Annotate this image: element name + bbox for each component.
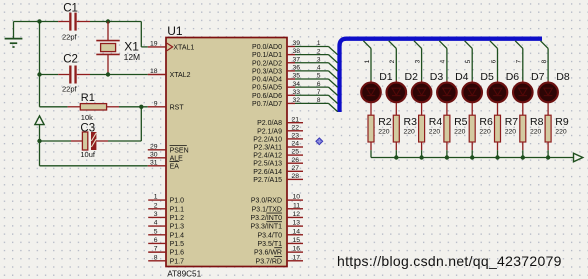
pin name PSEN overline <box>170 145 189 154</box>
resistor R5 <box>444 115 468 157</box>
svg-text:D6: D6 <box>506 71 520 83</box>
wire bus drop 8 <box>541 41 549 81</box>
power terminal VCC <box>35 116 44 166</box>
pin 6 P1.5 stub <box>148 237 166 244</box>
svg-text:D8: D8 <box>556 71 570 83</box>
svg-text:D3: D3 <box>430 71 444 83</box>
svg-text:5: 5 <box>154 228 158 235</box>
LED D1 <box>361 71 393 115</box>
resistor R8 <box>520 115 544 157</box>
svg-text:R9: R9 <box>555 116 569 128</box>
wire bus drop 1 <box>363 41 371 81</box>
resistor R3 <box>393 115 417 157</box>
svg-text:1: 1 <box>364 59 371 63</box>
wire top rail <box>14 21 59 23</box>
svg-text:5: 5 <box>317 73 321 80</box>
capacitor C1 <box>58 3 90 42</box>
resistor R6 <box>469 115 493 157</box>
wire bus drop 4 <box>439 41 447 81</box>
pin 15 P3.5/T1 stub <box>257 237 303 248</box>
pin 21 P2.0/A8 stub <box>257 116 303 127</box>
pin 37 P0.2/AD2 <box>252 56 300 67</box>
pin 11 P3.1/TXD stub <box>252 202 303 213</box>
svg-text:D7: D7 <box>531 71 545 83</box>
LED D7 <box>513 71 545 115</box>
pin 35 P0.4/AD4 <box>252 73 300 84</box>
svg-text:18: 18 <box>150 68 158 75</box>
wire P0.4 to bus <box>295 73 338 88</box>
svg-text:13: 13 <box>292 220 300 227</box>
pin 17 P3.7/RD stub <box>256 254 303 265</box>
svg-text:8: 8 <box>541 59 548 63</box>
svg-text:26: 26 <box>291 157 299 164</box>
svg-text:P3.2/INT0: P3.2/INT0 <box>250 215 282 222</box>
svg-text:P2.5/A13: P2.5/A13 <box>253 161 282 168</box>
svg-text:17: 17 <box>292 254 300 261</box>
wire P0.3 to bus <box>295 65 338 80</box>
svg-text:P3.5/T1: P3.5/T1 <box>257 241 282 248</box>
pin 23 P2.2/A10 stub <box>253 133 303 144</box>
svg-text:C3: C3 <box>80 123 95 135</box>
node rail junction 2 <box>394 155 398 159</box>
svg-text:P3.1/TXD: P3.1/TXD <box>252 206 282 213</box>
pin 30 ALE stub <box>148 151 166 158</box>
wire bus drop 6 <box>490 41 498 81</box>
svg-text:10: 10 <box>292 194 300 201</box>
svg-text:U1: U1 <box>167 24 183 38</box>
svg-text:2: 2 <box>154 202 158 209</box>
pin 28 P2.7/A15 stub <box>253 173 303 184</box>
wire bus drop 2 <box>389 41 397 81</box>
svg-text:4: 4 <box>154 220 158 227</box>
svg-text:P3.3/INT1: P3.3/INT1 <box>250 224 282 231</box>
svg-text:27: 27 <box>291 165 299 172</box>
pin 29 PSEN stub <box>148 143 166 150</box>
svg-text:220: 220 <box>454 128 466 135</box>
node rail junction 6 <box>495 155 499 159</box>
svg-text:1: 1 <box>154 194 158 201</box>
node crystal top junction <box>106 19 110 23</box>
pin 26 P2.5/A13 stub <box>253 157 303 168</box>
pin 7 P1.6 stub <box>148 246 166 253</box>
node RST junction <box>139 105 143 109</box>
svg-text:P2.4/A12: P2.4/A12 <box>253 153 282 160</box>
svg-text:220: 220 <box>479 128 491 135</box>
svg-text:P0.3/AD3: P0.3/AD3 <box>252 68 282 75</box>
wire VCC to EA <box>40 165 148 167</box>
pin 3 P1.2 stub <box>148 211 166 218</box>
svg-text:P2.1/A9: P2.1/A9 <box>257 128 282 135</box>
wire P0.7 to bus <box>295 97 338 112</box>
svg-text:6: 6 <box>154 237 158 244</box>
wire ground vertical <box>39 22 41 107</box>
svg-text:15: 15 <box>292 237 300 244</box>
svg-text:12: 12 <box>292 211 300 218</box>
svg-text:R7: R7 <box>505 116 519 128</box>
LED D4 <box>437 71 469 115</box>
wire bus drop 3 <box>414 41 422 81</box>
svg-text:3: 3 <box>414 59 421 63</box>
svg-text:220: 220 <box>530 128 542 135</box>
svg-text:P0.2/AD2: P0.2/AD2 <box>252 60 282 67</box>
svg-text:21: 21 <box>291 116 299 123</box>
pin 19 XTAL1 stub <box>148 41 166 48</box>
pin name XTAL1 with clock marker <box>167 43 195 51</box>
crystal X1 <box>96 22 140 75</box>
svg-text:16: 16 <box>292 246 300 253</box>
svg-text:220: 220 <box>378 128 390 135</box>
svg-text:R6: R6 <box>479 116 493 128</box>
svg-text:5: 5 <box>465 59 472 63</box>
pin 13 P3.3/INT1 stub <box>250 220 303 231</box>
svg-text:23: 23 <box>291 133 299 140</box>
svg-text:11: 11 <box>293 202 300 209</box>
svg-text:10uf: 10uf <box>80 150 96 159</box>
node rail junction 8 <box>546 155 550 159</box>
svg-text:25: 25 <box>291 149 299 156</box>
pin 5 P1.4 stub <box>148 228 166 235</box>
pin 27 P2.6/A14 stub <box>253 165 303 176</box>
svg-text:P2.7/A15: P2.7/A15 <box>253 177 282 184</box>
wire bus drop 5 <box>465 41 473 81</box>
svg-text:XTAL1: XTAL1 <box>173 44 194 51</box>
svg-text:R1: R1 <box>81 92 95 104</box>
svg-text:P0.0/AD0: P0.0/AD0 <box>252 44 282 51</box>
svg-text:R5: R5 <box>454 116 468 128</box>
svg-text:29: 29 <box>150 143 158 150</box>
LED D3 <box>412 71 444 115</box>
pin 32 P0.7/AD7 <box>252 97 300 108</box>
svg-text:P1.2: P1.2 <box>170 215 185 222</box>
terminal arrow right <box>574 153 583 162</box>
svg-text:6: 6 <box>317 81 321 88</box>
wire P0.0 to bus <box>295 40 338 55</box>
svg-text:22: 22 <box>291 124 299 131</box>
svg-text:P0.5/AD5: P0.5/AD5 <box>252 85 282 92</box>
node rail junction 7 <box>521 155 525 159</box>
svg-text:14: 14 <box>292 228 300 235</box>
svg-text:RST: RST <box>170 104 185 111</box>
svg-text:220: 220 <box>404 128 416 135</box>
svg-text:P1.6: P1.6 <box>170 250 185 257</box>
svg-text:PSEN: PSEN <box>170 147 189 154</box>
svg-text:28: 28 <box>291 173 299 180</box>
svg-text:P3.4/T0: P3.4/T0 <box>257 232 282 239</box>
svg-text:P3.7/RD: P3.7/RD <box>256 258 282 265</box>
node rail junction 4 <box>445 155 449 159</box>
op-amp U1 AT89C51 body <box>166 24 287 278</box>
pin 22 P2.1/A9 stub <box>257 124 303 135</box>
capacitor C3 <box>40 123 109 160</box>
svg-text:R3: R3 <box>404 116 418 128</box>
svg-text:3: 3 <box>154 211 158 218</box>
svg-text:220: 220 <box>505 128 517 135</box>
svg-text:P2.0/A8: P2.0/A8 <box>257 120 282 127</box>
svg-text:9: 9 <box>154 100 158 107</box>
svg-text:EA: EA <box>170 163 180 170</box>
pin name EA overline <box>170 161 180 170</box>
svg-text:220: 220 <box>429 128 441 135</box>
pin 10 P3.0/RXD stub <box>251 194 303 205</box>
svg-text:P0.7/AD7: P0.7/AD7 <box>252 101 282 108</box>
svg-text:P2.3/A11: P2.3/A11 <box>254 145 282 152</box>
pin 2 P1.1 stub <box>148 202 166 209</box>
svg-text:D4: D4 <box>455 71 469 83</box>
svg-text:C1: C1 <box>63 3 78 15</box>
bus P0 <box>340 39 543 112</box>
svg-text:P1.5: P1.5 <box>170 241 185 248</box>
ground <box>5 22 23 48</box>
svg-text:R4: R4 <box>429 116 443 128</box>
svg-text:P1.7: P1.7 <box>170 258 185 265</box>
pin 34 P0.5/AD5 <box>252 81 300 92</box>
pin 24 P2.3/A11 stub <box>254 141 303 152</box>
wire R1 to RST <box>119 106 148 108</box>
resistor R1 <box>40 92 120 122</box>
pin 25 P2.4/A12 stub <box>253 149 303 160</box>
svg-text:https://blog.csdn.net/qq_42372: https://blog.csdn.net/qq_42372079 <box>337 253 562 269</box>
svg-text:10k: 10k <box>81 113 93 122</box>
wire C1 to XTAL1 corner <box>90 21 141 23</box>
svg-text:XTAL2: XTAL2 <box>170 72 191 79</box>
pin 38 P0.1/AD1 <box>252 48 300 59</box>
node rail junction 5 <box>470 155 474 159</box>
wire P0.2 to bus <box>295 56 338 71</box>
node rail junction 3 <box>419 155 423 159</box>
pin 4 P1.3 stub <box>148 220 166 227</box>
pin 33 P0.6/AD6 <box>252 89 300 100</box>
svg-text:AT89C51: AT89C51 <box>167 269 201 278</box>
pin 18 XTAL2 stub <box>148 68 166 75</box>
node origin marker <box>316 138 323 145</box>
svg-text:22pf: 22pf <box>62 85 78 94</box>
pin 31 EA stub <box>148 159 166 166</box>
svg-text:24: 24 <box>291 141 299 148</box>
pin 39 P0.0/AD0 <box>252 40 300 51</box>
wire P0.5 to bus <box>295 81 338 96</box>
svg-text:D2: D2 <box>405 71 419 83</box>
pin 36 P0.3/AD3 <box>252 64 300 75</box>
svg-text:P2.6/A14: P2.6/A14 <box>253 169 282 176</box>
capacitor C2 <box>40 53 91 93</box>
svg-text:P2.2/A10: P2.2/A10 <box>253 136 282 143</box>
svg-text:2: 2 <box>317 48 321 55</box>
svg-text:4: 4 <box>440 59 447 63</box>
node C2 row junction <box>37 72 41 76</box>
svg-text:12M: 12M <box>124 52 141 62</box>
wire RST to C3 <box>140 107 142 141</box>
svg-text:8: 8 <box>154 254 158 261</box>
svg-text:P1.4: P1.4 <box>170 232 185 239</box>
svg-text:220: 220 <box>555 128 567 135</box>
resistor R2 <box>368 115 392 157</box>
svg-text:19: 19 <box>150 41 158 48</box>
svg-text:P0.1/AD1: P0.1/AD1 <box>252 52 282 59</box>
svg-text:D5: D5 <box>480 71 494 83</box>
svg-text:8: 8 <box>317 97 321 104</box>
svg-text:P1.3: P1.3 <box>170 224 185 231</box>
wire bottom rail <box>371 157 574 159</box>
svg-text:P3.0/RXD: P3.0/RXD <box>251 198 282 205</box>
pin 8 P1.7 stub <box>148 254 166 261</box>
pin 9 RST stub <box>148 100 166 107</box>
svg-text:R2: R2 <box>378 116 392 128</box>
pin 12 P3.2/INT0 stub <box>250 211 303 222</box>
svg-text:P1.0: P1.0 <box>170 198 185 205</box>
svg-text:3: 3 <box>317 56 321 63</box>
svg-text:D1: D1 <box>379 71 393 83</box>
svg-text:7: 7 <box>154 246 158 253</box>
wire bus drop 7 <box>515 41 523 81</box>
wire P0.6 to bus <box>295 89 338 104</box>
resistor R9 <box>545 115 569 157</box>
svg-text:4: 4 <box>317 65 321 72</box>
pin 1 P1.0 stub <box>148 194 166 201</box>
pin 16 P3.6/WR stub <box>254 246 303 257</box>
svg-text:P0.4/AD4: P0.4/AD4 <box>252 77 282 84</box>
LED D2 <box>387 71 419 115</box>
node VCC junction <box>37 139 41 143</box>
svg-text:C2: C2 <box>63 53 78 65</box>
svg-text:2: 2 <box>389 59 396 63</box>
svg-text:P0.6/AD6: P0.6/AD6 <box>252 93 282 100</box>
resistor R4 <box>419 115 443 157</box>
wire C2 to XTAL2 <box>90 74 148 76</box>
svg-text:6: 6 <box>490 59 497 63</box>
node top-left junction <box>37 19 41 23</box>
svg-text:R8: R8 <box>530 116 544 128</box>
node crystal bottom junction <box>106 72 110 76</box>
resistor R7 <box>495 115 519 157</box>
svg-text:30: 30 <box>150 151 158 158</box>
svg-text:P3.6/WR: P3.6/WR <box>254 250 282 257</box>
svg-text:1: 1 <box>317 40 321 47</box>
pin 14 P3.4/T0 stub <box>257 228 303 239</box>
svg-text:31: 31 <box>150 159 158 166</box>
svg-text:P1.1: P1.1 <box>170 206 185 213</box>
LED D6 <box>488 71 520 115</box>
svg-text:7: 7 <box>317 89 321 96</box>
LED D8 <box>538 71 570 115</box>
wire P0.1 to bus <box>295 48 338 63</box>
svg-text:22pf: 22pf <box>62 33 78 42</box>
LED D5 <box>462 71 494 115</box>
svg-text:7: 7 <box>516 59 523 63</box>
